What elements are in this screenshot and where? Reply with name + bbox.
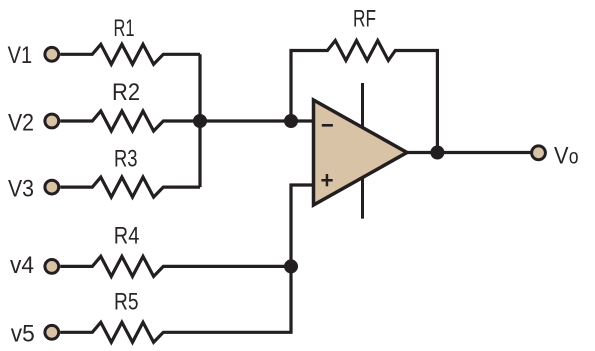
svg-text:R5: R5 [114, 289, 139, 316]
svg-text:RF: RF [353, 6, 376, 33]
svg-text:v4: v4 [10, 252, 34, 279]
svg-text:R2: R2 [112, 79, 140, 106]
svg-text:V: V [554, 142, 569, 169]
svg-text:R4: R4 [114, 223, 140, 250]
svg-text:R1: R1 [114, 15, 135, 42]
svg-text:V3: V3 [8, 176, 34, 203]
svg-text:o: o [569, 145, 579, 168]
svg-text:R3: R3 [114, 145, 138, 172]
svg-text:V1: V1 [8, 42, 32, 69]
svg-text:V2: V2 [8, 110, 34, 137]
svg-text:v5: v5 [11, 321, 35, 348]
